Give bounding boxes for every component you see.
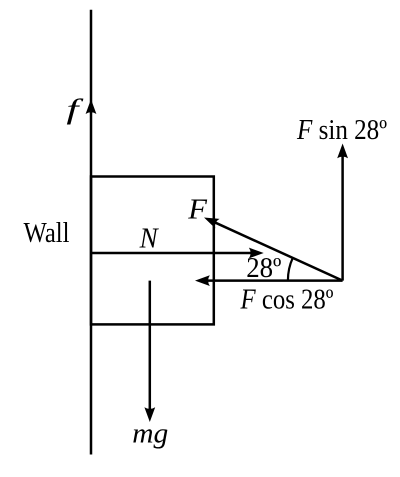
F cos component wire (horizontal, left) bbox=[203, 279, 343, 282]
svg-text:Wall: Wall bbox=[24, 217, 70, 249]
svg-text:N: N bbox=[139, 222, 160, 254]
block rectangle bbox=[91, 177, 214, 325]
mg arrowhead bbox=[144, 407, 155, 422]
N arrowhead bbox=[249, 248, 264, 259]
F sin arrowhead bbox=[337, 144, 348, 159]
angle arc 28deg bbox=[288, 258, 293, 281]
normal force N wire bbox=[91, 252, 256, 255]
wall line bbox=[90, 10, 93, 455]
svg-text:mg: mg bbox=[132, 417, 168, 449]
F sin component wire (vertical, up) bbox=[341, 151, 344, 281]
svg-text:F: F bbox=[187, 194, 208, 225]
weight mg wire bbox=[149, 281, 152, 413]
svg-text:28º: 28º bbox=[246, 252, 281, 284]
friction arrowhead f (on wall line, pointing up) bbox=[86, 99, 97, 114]
svg-text:F cos 28º: F cos 28º bbox=[240, 283, 334, 315]
F arrowhead bbox=[204, 218, 220, 229]
force F wire (diagonal from origin up-left) bbox=[210, 220, 343, 280]
F cos arrowhead bbox=[195, 275, 210, 286]
svg-text:F sin 28º: F sin 28º bbox=[296, 114, 387, 146]
